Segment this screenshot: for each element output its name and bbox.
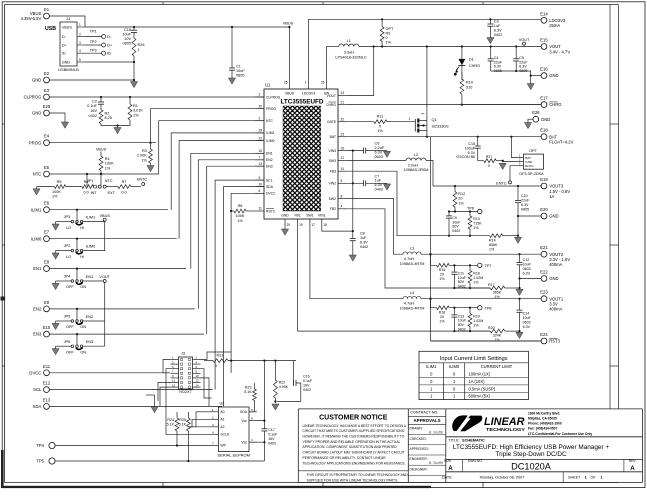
svg-text:TECHNOLOGY: TECHNOLOGY	[486, 427, 526, 433]
wire EEPROM SCLK	[166, 390, 211, 435]
svg-text:1.02M: 1.02M	[473, 276, 483, 280]
svg-text:0805: 0805	[521, 208, 529, 212]
svg-text:0: 0	[379, 125, 381, 129]
svg-text:JP3: JP3	[64, 214, 71, 219]
svg-text:365K: 365K	[493, 291, 502, 295]
svg-text:JP1: JP1	[87, 179, 94, 183]
ground C12	[516, 289, 523, 295]
wire R21 node down	[293, 361, 295, 383]
resistor R21	[204, 354, 296, 368]
svg-text:0: 0	[215, 364, 217, 368]
svg-text:B. Stuffle: B. Stuffle	[429, 461, 444, 465]
svg-text:PERFORMANCE OR RELIABILITY. C: PERFORMANCE OR RELIABILITY. CONTACT LINE…	[303, 456, 387, 460]
svg-text:4.99K: 4.99K	[279, 385, 289, 389]
resistor R1	[128, 96, 143, 124]
svg-text:VIN1: VIN1	[318, 213, 326, 217]
capacitor C7	[347, 174, 387, 191]
svg-text:R27: R27	[486, 155, 493, 159]
svg-text:EN3: EN3	[33, 332, 42, 337]
svg-text:E23: E23	[540, 290, 548, 295]
svg-text:R16: R16	[473, 272, 480, 276]
wire TP4 junctions	[176, 444, 178, 446]
svg-text:10uF: 10uF	[122, 33, 131, 37]
svg-text:DVCC: DVCC	[29, 370, 41, 375]
transistor Q1 Si2333DS	[415, 114, 449, 133]
wire VOUT3 fb node	[449, 235, 490, 237]
capacitor C4	[488, 45, 503, 73]
svg-text:0402: 0402	[494, 33, 502, 37]
terminal E2	[32, 71, 50, 83]
svg-text:Monday, October 08, 2007: Monday, October 08, 2007	[480, 475, 525, 479]
svg-text:SHEET: SHEET	[568, 476, 581, 480]
terminal E6	[31, 201, 50, 213]
resistor R2	[99, 110, 112, 124]
svg-text:VBUS: VBUS	[285, 92, 295, 96]
svg-text:L4: L4	[410, 291, 414, 295]
capacitor C12	[517, 253, 532, 289]
svg-text:1uF: 1uF	[360, 236, 367, 240]
svg-text:1098AS-2R0M: 1098AS-2R0M	[404, 168, 429, 172]
svg-text:1%: 1%	[105, 166, 111, 170]
svg-text:13: 13	[172, 383, 176, 387]
svg-text:0: 0	[488, 164, 490, 168]
svg-text:0402: 0402	[375, 188, 383, 192]
svg-text:FB2: FB2	[330, 207, 336, 211]
svg-text:23: 23	[341, 132, 345, 136]
svg-text:R18: R18	[439, 310, 446, 314]
svg-text:14: 14	[196, 383, 200, 387]
svg-text:C8: C8	[360, 232, 365, 236]
svg-text:LDO3V3: LDO3V3	[302, 92, 315, 96]
svg-text:Fax: (408)434-0507: Fax: (408)434-0507	[528, 426, 557, 430]
svg-text:16V: 16V	[90, 109, 97, 113]
wire E2	[49, 79, 134, 81]
svg-text:ID: ID	[62, 52, 66, 56]
svg-text:R11: R11	[377, 115, 384, 119]
svg-text:1: 1	[409, 117, 411, 121]
svg-text:8: 8	[341, 194, 343, 198]
svg-text:C7: C7	[375, 174, 380, 178]
svg-text:R17: R17	[488, 283, 495, 287]
svg-text:C10: C10	[521, 194, 528, 198]
svg-text:R10: R10	[466, 81, 473, 85]
approvals block	[408, 411, 446, 476]
svg-text:A: A	[448, 465, 453, 472]
svg-text:5.1K: 5.1K	[167, 423, 175, 427]
svg-text:10: 10	[196, 374, 200, 378]
svg-text:12: 12	[341, 156, 345, 160]
pin U1 NTC 3	[255, 116, 273, 123]
terminal E4	[29, 134, 50, 146]
jumper JP5	[56, 314, 94, 330]
svg-text:JP2: JP2	[64, 243, 71, 248]
wire JP5 ON to VOUT column	[83, 320, 105, 322]
svg-text:LTC3555EUFD: High Efficiency U: LTC3555EUFD: High Efficiency USB Power M…	[453, 444, 609, 451]
test point TP5	[36, 458, 55, 464]
svg-text:ON: ON	[80, 324, 86, 329]
wire E25 to ground	[49, 113, 65, 122]
svg-text:TP4: TP4	[36, 443, 44, 448]
node VBUS label	[283, 21, 294, 28]
svg-text:PROG: PROG	[266, 107, 276, 111]
wire E12	[49, 389, 212, 391]
terminal E11	[29, 364, 50, 376]
svg-text:C3: C3	[494, 20, 499, 24]
svg-text:D+: D+	[107, 43, 113, 48]
resistor R14	[489, 234, 518, 252]
svg-text:1%: 1%	[473, 323, 479, 327]
wire E8	[49, 268, 186, 270]
svg-text:0.1uF: 0.1uF	[268, 433, 278, 437]
pin U1 ILIM0 22	[255, 136, 274, 143]
svg-text:1%: 1%	[141, 158, 147, 162]
ground C4 C5	[527, 84, 534, 90]
svg-text:JP4: JP4	[64, 274, 72, 279]
svg-text:FB3: FB3	[330, 170, 336, 174]
svg-text:CONTRACT NO.: CONTRACT NO.	[410, 411, 438, 415]
wire VOUT pin riser	[347, 47, 374, 96]
size dwg rev row	[298, 409, 642, 483]
pin U1 VOUT 24	[327, 91, 347, 98]
svg-text:1%: 1%	[489, 247, 495, 251]
svg-text:6.3V: 6.3V	[468, 151, 476, 155]
svg-text:LO: LO	[66, 254, 71, 259]
wire R17 to C12 foot	[505, 287, 520, 289]
svg-text:1%: 1%	[439, 319, 445, 323]
ground R27	[499, 163, 506, 169]
wire EN3 riser to U1	[207, 166, 264, 334]
wire LDO3V3 rail	[309, 19, 541, 84]
svg-text:VBUS: VBUS	[62, 25, 72, 29]
svg-text:1uF: 1uF	[375, 179, 382, 183]
inductor L4	[400, 291, 425, 310]
svg-text:0402: 0402	[268, 442, 276, 446]
svg-text:E20: E20	[540, 207, 548, 212]
pin U1 SW2 8	[329, 194, 347, 201]
svg-text:EN3: EN3	[86, 339, 94, 344]
wire L2 to VOUT3 row	[426, 161, 433, 187]
resistor R20	[488, 326, 505, 342]
svg-text:1%: 1%	[386, 41, 392, 45]
resistor R24	[167, 412, 179, 446]
svg-text:VBUS: VBUS	[100, 214, 111, 218]
terminal E18	[540, 128, 573, 145]
svg-text:E22: E22	[540, 270, 548, 275]
svg-text:25: 25	[284, 81, 288, 85]
svg-text:VBUS: VBUS	[283, 21, 294, 25]
pin U1 LDO3V3 1	[302, 81, 315, 96]
svg-text:5.1K: 5.1K	[179, 423, 187, 427]
svg-text:3: 3	[259, 116, 261, 120]
svg-text:22: 22	[259, 136, 263, 140]
svg-text:6.3V: 6.3V	[375, 150, 383, 154]
wire TP4	[55, 445, 210, 447]
svg-text:TP6: TP6	[467, 207, 474, 211]
wire E16 GND	[531, 75, 541, 77]
svg-text:2.00K: 2.00K	[137, 154, 147, 158]
svg-text:E24: E24	[540, 332, 548, 337]
terminal E14	[540, 11, 566, 28]
svg-text:HOWEVER, IT REMAINS THE CUSTOM: HOWEVER, IT REMAINS THE CUSTOMERS RESPON…	[303, 435, 405, 439]
pin U1 BAT 23	[330, 132, 347, 139]
svg-text:ILIM0: ILIM0	[449, 364, 460, 369]
svg-text:SCLK: SCLK	[220, 433, 230, 437]
svg-text:VBUS: VBUS	[96, 148, 107, 152]
svg-text:R19: R19	[473, 314, 480, 318]
ground J3 bus	[154, 395, 156, 407]
svg-text:ILIM1: ILIM1	[426, 364, 437, 369]
wire JP1 riser	[86, 174, 88, 187]
resistor R5	[52, 180, 66, 198]
wire E18	[540, 136, 542, 138]
svg-text:26: 26	[321, 81, 325, 85]
terminal E25	[32, 104, 51, 116]
svg-text:TECHNOLOGY APPLICATIONS ENGINE: TECHNOLOGY APPLICATIONS ENGINEERING FOR …	[303, 461, 406, 465]
wire E4	[49, 142, 156, 144]
svg-text:20: 20	[259, 104, 263, 108]
ground R22	[272, 404, 279, 410]
wire VOUT rail	[359, 46, 541, 48]
svg-text:ILIM0: ILIM0	[31, 236, 42, 241]
pin U1 RST3 11	[255, 207, 275, 214]
resistor R23	[244, 383, 256, 412]
capacitor C10	[515, 185, 530, 236]
svg-text:R4: R4	[105, 157, 110, 161]
svg-text:EN1: EN1	[33, 266, 42, 271]
svg-text:22uF: 22uF	[521, 199, 530, 203]
svg-text:17: 17	[311, 223, 315, 227]
svg-text:OFF: OFF	[66, 324, 74, 329]
svg-text:400mA: 400mA	[549, 262, 562, 267]
svg-text:EN2: EN2	[86, 314, 94, 319]
wire SW3 row through L2	[347, 160, 406, 162]
svg-text:VIN2: VIN2	[328, 182, 336, 186]
wire R5-R6	[66, 186, 82, 188]
svg-text:CURRENT LIMIT: CURRENT LIMIT	[481, 364, 513, 369]
svg-text:0402: 0402	[458, 327, 466, 331]
wire J3 right connections	[201, 352, 232, 360]
svg-text:CIRCUIT THAT MEETS CUSTOMER-SU: CIRCUIT THAT MEETS CUSTOMER-SUPPLIED SPE…	[303, 429, 405, 433]
svg-text:R23: R23	[245, 386, 252, 390]
svg-text:4: 4	[341, 205, 343, 209]
wire E1 VBUS to J1	[49, 16, 85, 27]
svg-text:A1: A1	[220, 418, 224, 422]
svg-text:BAT: BAT	[330, 135, 336, 139]
wire E20	[540, 215, 542, 217]
svg-text:100K: 100K	[236, 214, 245, 218]
resistor R19	[468, 307, 483, 332]
svg-text:CIRCUIT BOARD LAYOUT MAY SIGNI: CIRCUIT BOARD LAYOUT MAY SIGNIFICANTLY A…	[303, 451, 405, 455]
capacitor C13	[451, 307, 466, 332]
svg-text:510: 510	[466, 86, 472, 90]
svg-text:OSCON B6: OSCON B6	[456, 155, 475, 159]
svg-text:16V: 16V	[268, 437, 275, 441]
terminal E3	[24, 88, 50, 100]
logo Linear Technology	[452, 415, 526, 432]
wire E7	[49, 238, 176, 240]
svg-text:SCHEMATIC: SCHEMATIC	[462, 438, 485, 443]
svg-text:20: 20	[440, 272, 444, 276]
svg-text:0.1uF: 0.1uF	[87, 104, 97, 108]
ground U1 GND	[281, 229, 288, 235]
svg-text:TP7: TP7	[485, 264, 492, 268]
svg-text:2: 2	[79, 32, 81, 36]
svg-text:DESIGNER:: DESIGNER:	[410, 467, 428, 471]
wire CLPROG divider to ground	[101, 124, 130, 126]
wire R20 to C14 foot	[505, 330, 520, 332]
svg-text:3.3uH: 3.3uH	[344, 51, 354, 55]
svg-text:HI: HI	[80, 254, 84, 259]
svg-text:LINEAR: LINEAR	[484, 416, 525, 428]
wire EEPROM address stubs	[196, 411, 211, 413]
svg-text:CHECKED:: CHECKED:	[410, 437, 427, 441]
svg-text:0805: 0805	[123, 42, 131, 46]
ground R3	[150, 163, 152, 166]
svg-text:E19: E19	[540, 177, 548, 182]
wire E11	[49, 372, 170, 374]
test point TP1	[85, 29, 112, 39]
wire EN1 riser to U1	[191, 153, 264, 268]
svg-text:ENTC: ENTC	[525, 164, 534, 168]
pin U1 GND 29	[281, 213, 290, 227]
svg-text:2: 2	[259, 93, 261, 97]
svg-text:E16: E16	[540, 67, 548, 72]
svg-text:R2: R2	[105, 112, 110, 116]
svg-text:APPLICATION. COMPONENT SUBSTI: APPLICATION. COMPONENT SUBSTITUTION AND …	[303, 445, 398, 449]
node VBUS stub JP3	[100, 214, 111, 221]
wire EEPROM Vss to TP5	[249, 442, 264, 461]
pin U1 FB1 19	[294, 213, 302, 227]
wire VBUS rail	[85, 26, 289, 28]
svg-text:5.1K: 5.1K	[244, 390, 252, 394]
svg-text:Milpitas, CA 95035: Milpitas, CA 95035	[528, 416, 557, 420]
wire E10	[49, 333, 204, 335]
wire VOUT2 row	[421, 253, 541, 255]
resistor R15	[429, 253, 449, 281]
svg-text:C16: C16	[303, 375, 310, 379]
pin U1 EN3 13	[255, 162, 273, 169]
svg-text:NTC: NTC	[266, 119, 274, 123]
wire E15	[540, 46, 542, 48]
resistor R25	[179, 412, 191, 461]
svg-text:6.3V: 6.3V	[523, 272, 531, 276]
capacitor C2	[87, 96, 104, 118]
svg-text:Phone: (408)432-1900: Phone: (408)432-1900	[528, 421, 562, 425]
pin U1 PROG 20	[255, 104, 276, 111]
svg-text:RST3: RST3	[266, 209, 275, 213]
ground C7	[383, 184, 390, 190]
svg-text:EN3: EN3	[266, 165, 273, 169]
svg-text:ILIM1: ILIM1	[86, 215, 96, 220]
ground JP5	[52, 323, 59, 329]
svg-text:APPROVED:: APPROVED:	[410, 447, 429, 451]
wire R26 to ground	[133, 56, 135, 81]
svg-text:E10: E10	[43, 325, 51, 330]
svg-text:2.2uF: 2.2uF	[375, 146, 385, 150]
wire JP1 to NTC node	[100, 174, 102, 185]
terminal E26	[532, 110, 550, 122]
wire VOUT3 row	[433, 185, 541, 187]
wire PROG riser	[151, 109, 265, 143]
svg-text:16: 16	[259, 149, 263, 153]
wire E3	[49, 96, 264, 98]
svg-text:C17: C17	[268, 428, 275, 432]
wire SW2 to L3	[347, 199, 403, 255]
pin U1 VIN2 5	[328, 179, 346, 186]
svg-text:100uF: 100uF	[465, 146, 476, 150]
terminal E15	[540, 38, 570, 55]
svg-text:1%: 1%	[439, 277, 445, 281]
pin U1 FB3 14	[330, 167, 347, 174]
terminal E19	[540, 177, 570, 199]
terminal E7	[31, 230, 50, 242]
svg-text:ON: ON	[80, 349, 86, 354]
svg-text:OFF: OFF	[66, 349, 74, 354]
svg-text:R13: R13	[473, 217, 480, 221]
resistor R8	[230, 204, 255, 223]
svg-text:SERIAL EEPROM: SERIAL EEPROM	[217, 453, 250, 458]
wire RST3 riser	[430, 137, 432, 341]
svg-text:L1: L1	[347, 39, 351, 43]
capacitor C11	[451, 264, 466, 288]
svg-text:DVCC: DVCC	[266, 192, 276, 196]
wire FB3 route	[347, 171, 449, 236]
ground C3	[487, 38, 494, 44]
wire DVCC riser to U1	[231, 193, 264, 372]
svg-text:ILIM0: ILIM0	[266, 139, 275, 143]
svg-text:Q1: Q1	[432, 118, 437, 122]
wire TP5	[55, 460, 264, 462]
wire J3 left connections	[163, 360, 171, 373]
svg-text:NTC: NTC	[105, 179, 113, 183]
diode D1 CHRG LED	[454, 47, 480, 81]
svg-text:29: 29	[287, 223, 291, 227]
node VOUT stub	[426, 38, 530, 48]
svg-text:E13: E13	[43, 397, 51, 402]
wire FB2 route	[347, 209, 490, 288]
svg-text:22: 22	[341, 117, 345, 121]
svg-text:ILIM0: ILIM0	[86, 244, 97, 249]
svg-text:TP1: TP1	[90, 29, 97, 33]
svg-text:LO: LO	[66, 225, 71, 230]
svg-text:1%: 1%	[473, 281, 479, 285]
svg-text:10uF: 10uF	[523, 316, 532, 320]
resistor R10	[460, 72, 473, 94]
svg-text:25mA: 25mA	[549, 23, 560, 28]
wire SW riser	[326, 47, 328, 85]
svg-text:6: 6	[259, 189, 261, 193]
terminal E16	[540, 67, 558, 79]
svg-text:R22: R22	[279, 381, 286, 385]
wire JP3 HI to VBUS	[83, 220, 105, 223]
ground C10	[517, 235, 519, 237]
wire VOUT1 mid node	[449, 307, 477, 309]
svg-text:100mA (1X): 100mA (1X)	[469, 372, 491, 377]
svg-text:ENTC: ENTC	[496, 182, 507, 186]
svg-text:E3: E3	[44, 88, 50, 93]
resistor R17	[488, 283, 505, 299]
wire E9	[49, 308, 194, 310]
svg-text:E12: E12	[43, 381, 51, 386]
wire JP4 ON to VOUT stub	[83, 280, 103, 282]
svg-text:TITLE:: TITLE:	[449, 439, 460, 443]
capacitor C18	[122, 26, 137, 46]
svg-text:GATE: GATE	[327, 120, 337, 124]
resistor R27	[478, 155, 504, 168]
svg-text:SW2: SW2	[329, 197, 336, 201]
svg-text:DATE:: DATE:	[442, 476, 453, 480]
wire JP3 post	[76, 210, 78, 221]
